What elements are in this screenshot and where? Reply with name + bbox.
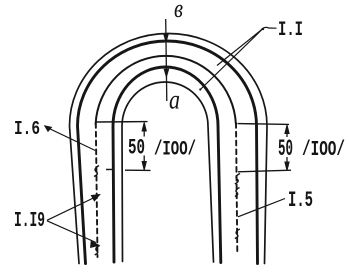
svg-text:I.I9: I.I9 <box>14 210 45 233</box>
svg-text:/IOO/: /IOO/ <box>302 139 345 162</box>
svg-text:I.I: I.I <box>278 19 303 42</box>
svg-text:50: 50 <box>278 136 293 162</box>
svg-text:I.5: I.5 <box>288 188 313 213</box>
svg-text:/IOO/: /IOO/ <box>154 139 196 162</box>
svg-text:а: а <box>169 85 180 115</box>
svg-text:50: 50 <box>128 136 145 161</box>
svg-text:в: в <box>174 0 183 23</box>
svg-text:I.6: I.6 <box>14 118 40 140</box>
